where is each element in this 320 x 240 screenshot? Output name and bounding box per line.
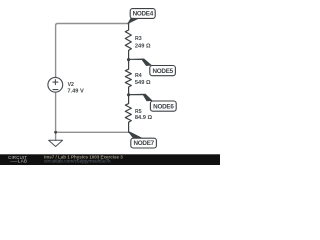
svg-text:circuitlab.com/c6dpjymsuh5o7k: circuitlab.com/c6dpjymsuh5o7k: [44, 159, 111, 165]
svg-text:R4: R4: [135, 73, 142, 79]
svg-text:V2: V2: [68, 82, 74, 88]
svg-text:NODE4: NODE4: [133, 11, 154, 18]
svg-text:NODE5: NODE5: [152, 68, 173, 75]
svg-text:7.49 V: 7.49 V: [67, 88, 84, 94]
svg-text:549 Ω: 549 Ω: [135, 80, 151, 86]
svg-text:–—LAB: –—LAB: [10, 159, 27, 164]
svg-text:84.9 Ω: 84.9 Ω: [135, 115, 153, 121]
svg-text:NODE7: NODE7: [133, 140, 154, 147]
svg-text:NODE6: NODE6: [153, 103, 174, 110]
svg-text:R3: R3: [135, 36, 142, 42]
svg-text:249 Ω: 249 Ω: [135, 43, 151, 49]
